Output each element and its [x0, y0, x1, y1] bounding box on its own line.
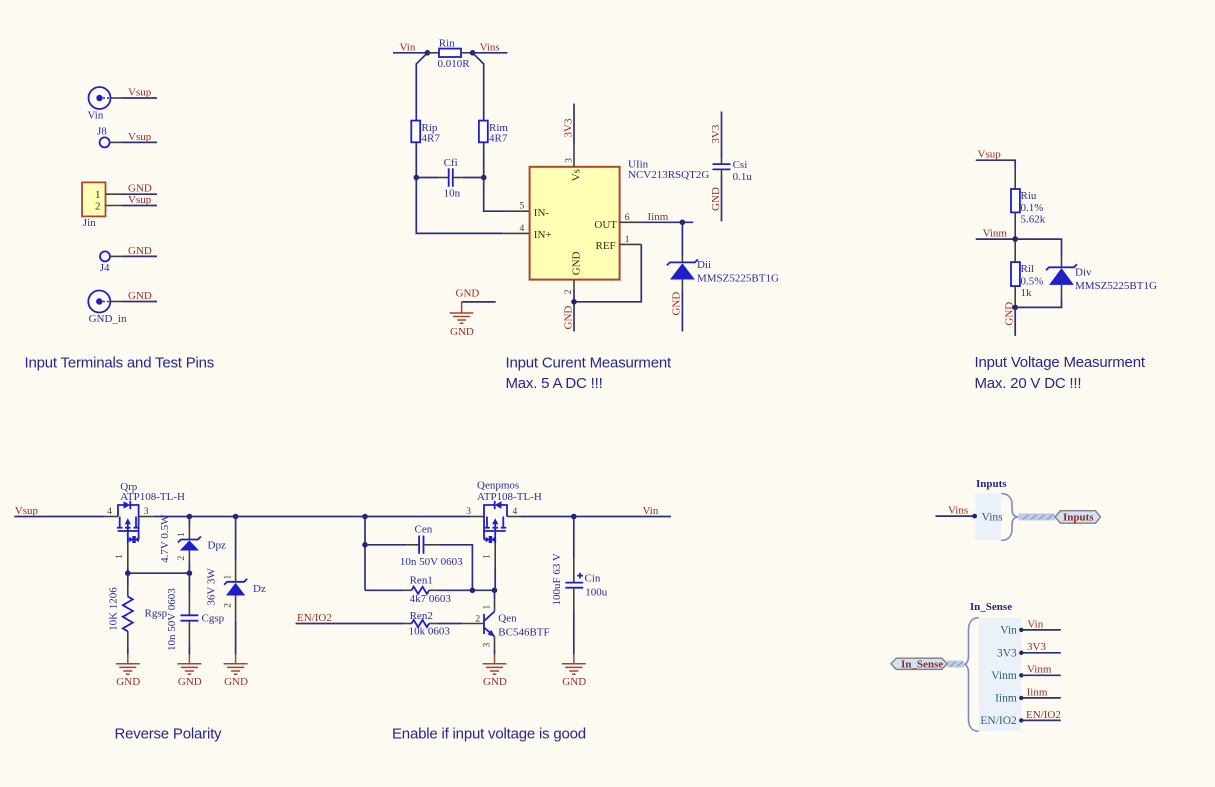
- node junction Cen row left: [362, 542, 368, 548]
- wire EN/IO2: [296, 623, 403, 625]
- wire Div bottom to GND row: [1015, 298, 1061, 307]
- harness In_Sense entry box: [979, 618, 1022, 732]
- pin 1 of Qen (collector): [482, 590, 494, 611]
- pin 4 of Qrp: [105, 507, 118, 517]
- svg-text:2: 2: [95, 200, 101, 212]
- diode Dpz 4.7V 0.5W (zener): [159, 514, 226, 563]
- wire GND from J4: [123, 255, 158, 257]
- wire gate down: [127, 568, 129, 573]
- wire 3V3: [1021, 652, 1061, 654]
- svg-text:Vins: Vins: [948, 505, 968, 517]
- pin 2 of Csi: [721, 169, 723, 175]
- svg-text:Csi: Csi: [733, 159, 748, 171]
- ground under Dz: [224, 655, 248, 688]
- node junction Vinm: [1012, 236, 1018, 242]
- svg-text:J4: J4: [100, 262, 110, 274]
- harness In_Sense brace: [964, 618, 979, 732]
- diode Dii MMSZ5225BT1G (zener): [667, 259, 779, 285]
- wire Csi bottom GND: [721, 176, 723, 222]
- wire of standalone GND port: [462, 301, 496, 303]
- svg-text:ATP108-TL-H: ATP108-TL-H: [477, 491, 542, 503]
- wire 3V3 to pin 3: [573, 104, 575, 145]
- wire Iinm: [1021, 697, 1061, 699]
- pin 2 of Rin: [461, 52, 473, 54]
- svg-text:Vsup: Vsup: [15, 505, 39, 517]
- wire rail to Cin: [573, 517, 575, 559]
- svg-text:6: 6: [625, 213, 630, 223]
- wire Cen row right: [439, 545, 473, 591]
- svg-text:In_Sense: In_Sense: [901, 659, 943, 671]
- svg-text:In_Sense: In_Sense: [970, 601, 1012, 613]
- svg-text:Vsup: Vsup: [128, 131, 152, 143]
- harness entry Iinm: [995, 692, 1023, 704]
- svg-text:Inputs: Inputs: [976, 478, 1007, 490]
- svg-text:EN/IO2: EN/IO2: [297, 612, 332, 624]
- svg-text:10K 1206: 10K 1206: [108, 587, 120, 631]
- node junction Dpz on rail: [187, 514, 193, 520]
- wire Vsup from J8: [123, 141, 158, 143]
- ground under Qen: [483, 655, 507, 688]
- svg-text:Vinm: Vinm: [991, 670, 1017, 682]
- pin 1 of Jin: [106, 193, 122, 195]
- wire Vsup from Vin: [123, 97, 158, 99]
- wire gate row: [128, 572, 190, 574]
- harness entry Vinm: [991, 670, 1023, 682]
- svg-text:2: 2: [177, 556, 187, 561]
- svg-text:Cin: Cin: [585, 572, 601, 584]
- resistor Rin: [438, 37, 471, 70]
- svg-text:NCV213RSQT2G: NCV213RSQT2G: [628, 169, 709, 181]
- wire Cgsp to gnd: [188, 647, 190, 655]
- wire Dii bottom GND: [681, 291, 683, 332]
- wire Riu to Vinm node: [1014, 235, 1016, 239]
- wire Vinm to Div branch: [1015, 239, 1061, 255]
- svg-text:1: 1: [95, 189, 101, 201]
- node junction Cen right leg: [470, 588, 476, 594]
- svg-text:GND_in: GND_in: [89, 313, 127, 325]
- svg-text:Vins: Vins: [480, 41, 500, 53]
- svg-text:5: 5: [520, 202, 525, 212]
- port In_Sense: [891, 658, 947, 670]
- svg-text:2: 2: [564, 289, 574, 294]
- svg-text:Qen: Qen: [498, 613, 517, 625]
- svg-text:GND: GND: [456, 288, 480, 300]
- svg-text:Input Curent Measurment: Input Curent Measurment: [506, 354, 673, 371]
- svg-text:Cen: Cen: [415, 523, 433, 535]
- wire Ren2 to base: [438, 623, 463, 625]
- wire from Cfi right down to IN- row: [484, 178, 503, 212]
- wire rail to Dz: [235, 517, 237, 561]
- capacitor Cfi: [444, 157, 461, 200]
- wire Vinm: [976, 238, 1016, 240]
- wire Cfi row right: [462, 177, 483, 179]
- wire Cen branch down: [364, 517, 366, 591]
- connector J8 (test pin): [97, 126, 110, 148]
- svg-text:IN+: IN+: [534, 229, 552, 241]
- svg-text:EN/IO2: EN/IO2: [980, 715, 1017, 727]
- wire diagonal down-right to Rim: [473, 53, 484, 121]
- wire Vin top-left: [393, 52, 427, 54]
- svg-text:4: 4: [513, 507, 518, 517]
- pin of J4: [110, 255, 123, 257]
- pin 2 of Dz: [223, 596, 235, 621]
- pin 1 of Dpz: [177, 526, 189, 539]
- svg-text:GND: GND: [128, 245, 152, 257]
- pin 3 of Qrp: [139, 507, 154, 517]
- ground symbol (earth) standalone: [450, 302, 474, 338]
- pin 2 of Cfi: [454, 177, 463, 179]
- pin 1 of Rin: [427, 52, 439, 54]
- diode Dz 36V 3W (zener): [206, 568, 266, 606]
- pin 2 of Qen (base): [462, 615, 483, 625]
- connector J4 (test pin): [100, 251, 110, 274]
- svg-text:IN-: IN-: [534, 207, 550, 219]
- node junction GND row: [1012, 305, 1018, 311]
- svg-text:Rin: Rin: [439, 37, 455, 49]
- wire Vsup rail left: [14, 516, 104, 518]
- harness cable In_Sense: [947, 662, 964, 667]
- pin 1 of Qenpmos (gate): [483, 543, 496, 568]
- pin 1 of Dz: [223, 560, 235, 582]
- wire Rgsp to gnd: [127, 648, 129, 655]
- svg-text:Div: Div: [1075, 267, 1092, 279]
- wire Cfi row left: [416, 177, 438, 179]
- svg-text:100u: 100u: [585, 586, 608, 598]
- svg-text:Cgsp: Cgsp: [202, 613, 225, 625]
- node junction Cin on rail: [571, 514, 577, 520]
- svg-text:0.1u: 0.1u: [733, 171, 753, 183]
- pin 1 of Div: [1061, 255, 1063, 267]
- resistor Ren1 4k7 0603: [403, 574, 451, 605]
- resistor Rgsp 10K 1206: [108, 573, 168, 648]
- svg-text:Inputs: Inputs: [1063, 512, 1094, 524]
- ground under Rgsp: [116, 655, 140, 688]
- pin 2 of Riu: [1014, 212, 1016, 235]
- svg-text:Iinm: Iinm: [995, 692, 1017, 704]
- svg-text:4: 4: [107, 507, 112, 517]
- svg-text:Vin: Vin: [1000, 624, 1017, 636]
- svg-text:Vins: Vins: [982, 511, 1004, 523]
- wire Qenpmos gate down to collector node: [494, 568, 496, 590]
- wire EN/IO2: [1021, 719, 1061, 721]
- node junction Dz on rail: [233, 514, 239, 520]
- svg-text:4R7: 4R7: [489, 132, 508, 144]
- pin 2 of Ril: [1014, 286, 1016, 305]
- wire rail to Dpz: [188, 517, 190, 527]
- svg-text:4.7V 0.5W: 4.7V 0.5W: [159, 514, 171, 563]
- svg-text:Dpz: Dpz: [208, 540, 226, 552]
- pin 1 of Ril: [1014, 242, 1016, 262]
- resistor Ren2 10k 0603: [403, 610, 450, 638]
- svg-text:ATP108-TL-H: ATP108-TL-H: [120, 491, 185, 503]
- harness cable Inputs: [1018, 515, 1055, 520]
- node junction Cen branch on rail: [362, 514, 368, 520]
- svg-text:GND: GND: [450, 326, 474, 338]
- svg-text:Max. 5 A DC !!!: Max. 5 A DC !!!: [506, 375, 603, 392]
- svg-text:Cfi: Cfi: [444, 157, 458, 169]
- wire diagonal down-left to Rip: [416, 53, 427, 121]
- svg-text:100uF 63 V: 100uF 63 V: [551, 553, 563, 605]
- pin 6 of UIin (OUT): [620, 213, 642, 223]
- svg-text:Dii: Dii: [697, 259, 711, 271]
- wire Vins: [936, 515, 976, 517]
- resistor Riu: [1011, 189, 1046, 226]
- svg-text:Input Voltage Measurment: Input Voltage Measurment: [975, 354, 1146, 371]
- svg-text:5.62k: 5.62k: [1021, 214, 1046, 226]
- diode Div MMSZ5225BT1G (zener): [1046, 264, 1157, 292]
- svg-text:J8: J8: [97, 126, 107, 138]
- svg-text:Vsup: Vsup: [978, 149, 1002, 161]
- svg-text:36V 3W: 36V 3W: [206, 568, 218, 606]
- svg-text:1: 1: [625, 235, 630, 245]
- harness Inputs brace: [1001, 494, 1018, 541]
- svg-text:GND: GND: [562, 306, 574, 330]
- transistor Q2 Qen BC546BTF (NPN): [484, 612, 550, 639]
- svg-text:Ren1: Ren1: [410, 574, 433, 586]
- svg-text:1: 1: [115, 554, 125, 559]
- svg-text:4R7: 4R7: [422, 132, 441, 144]
- connector GND_in (coax test point): [88, 291, 127, 326]
- node junction Iinm/Dii: [680, 220, 686, 226]
- wire rail Qrp to Qenpmos: [154, 516, 470, 518]
- wire GND from GND_in: [123, 301, 158, 303]
- pin 3 of UIin (top): [564, 145, 574, 167]
- svg-text:Qenpmos: Qenpmos: [477, 480, 519, 492]
- harness Inputs entry box: [975, 494, 1001, 541]
- wire Ril bottom: [1014, 305, 1016, 307]
- svg-text:Iinm: Iinm: [648, 211, 669, 223]
- connector Jin (2-pin header): [82, 182, 106, 229]
- svg-text:Riu: Riu: [1021, 190, 1037, 202]
- wire Rip bottom to Cfi row: [415, 142, 417, 177]
- wire pin2 down GND: [573, 290, 575, 332]
- node junction right of Rin: [470, 50, 476, 56]
- svg-text:GND: GND: [710, 187, 722, 211]
- svg-text:1k: 1k: [1021, 287, 1033, 299]
- node junction pin2/REF: [571, 299, 577, 305]
- svg-text:3: 3: [144, 507, 149, 517]
- node junction left of Rin: [425, 50, 431, 56]
- resistor Ril: [1011, 262, 1043, 299]
- wire Cen row left: [365, 544, 407, 546]
- pin 1 of Riu: [1014, 167, 1016, 189]
- svg-text:0.5%: 0.5%: [1021, 276, 1044, 288]
- svg-text:MMSZ5225BT1G: MMSZ5225BT1G: [1075, 280, 1157, 292]
- svg-text:Enable if input voltage is goo: Enable if input voltage is good: [392, 726, 586, 743]
- svg-text:MMSZ5225BT1G: MMSZ5225BT1G: [697, 273, 779, 285]
- svg-text:Vs: Vs: [571, 169, 583, 181]
- svg-text:Ren2: Ren2: [410, 610, 433, 622]
- svg-text:Vin: Vin: [1027, 618, 1043, 630]
- wire emitter to gnd: [494, 650, 496, 655]
- svg-text:1: 1: [482, 605, 492, 610]
- svg-text:10k 0603: 10k 0603: [409, 625, 451, 637]
- wire Ren1 row left: [365, 589, 403, 591]
- wire Vinm node down: [1014, 239, 1016, 242]
- pin of GND_in: [110, 301, 122, 303]
- transistor Q3 Qenpmos ATP108-TL-H (P-MOSFET): [477, 480, 542, 543]
- svg-text:3V3: 3V3: [710, 124, 722, 143]
- pin 2 of Jin: [106, 205, 122, 207]
- node junction gate row right: [187, 570, 193, 576]
- svg-text:Vsup: Vsup: [128, 87, 152, 99]
- svg-text:1: 1: [177, 532, 187, 537]
- wire Vin: [1021, 629, 1061, 631]
- svg-text:3: 3: [466, 507, 471, 517]
- wire Vinm: [1021, 674, 1061, 676]
- pin 2 of Dpz: [177, 551, 189, 563]
- pin 4 of Qenpmos: [507, 507, 521, 517]
- wire Vsup from Jin pin2: [122, 205, 157, 207]
- wire Ren1 to collector node: [438, 589, 495, 591]
- node dot at harness entry: [972, 514, 977, 519]
- svg-text:GND: GND: [671, 292, 683, 316]
- harness entry Vin: [1000, 624, 1023, 636]
- resistor Rip: [411, 121, 440, 145]
- svg-text:2: 2: [475, 615, 480, 625]
- svg-text:GND: GND: [1004, 302, 1016, 326]
- pin 1 of UIin (REF): [620, 235, 642, 245]
- capacitor Cen: [400, 523, 463, 568]
- wire from Cfi left down to IN+ row: [416, 178, 503, 234]
- svg-text:BC546BTF: BC546BTF: [498, 627, 549, 639]
- pin 1 of Qrp (gate): [115, 543, 128, 568]
- svg-text:3V3: 3V3: [997, 647, 1017, 659]
- svg-text:GND: GND: [128, 183, 152, 195]
- svg-text:4: 4: [520, 224, 525, 234]
- svg-text:Vin: Vin: [400, 41, 416, 53]
- svg-text:3: 3: [482, 643, 492, 648]
- capacitor Cin 100uF (polarized): [551, 553, 608, 612]
- svg-text:Vin: Vin: [88, 110, 104, 122]
- svg-text:Dz: Dz: [253, 583, 266, 595]
- pin 3 of Qen (emitter): [482, 637, 494, 651]
- svg-text:Vinm: Vinm: [1027, 664, 1052, 676]
- pin 3 of Qenpmos: [466, 507, 484, 517]
- wire GND down: [1014, 307, 1016, 336]
- pin 5 of UIin: [503, 202, 530, 212]
- node junction gate/collector: [492, 588, 498, 594]
- svg-text:REF: REF: [596, 240, 616, 252]
- pin 2 of UIin (bottom GND): [564, 280, 574, 295]
- wire Cin to gnd: [573, 612, 575, 655]
- svg-text:10n: 10n: [444, 188, 461, 200]
- port Inputs: [1055, 511, 1100, 524]
- svg-text:Input Terminals and Test Pins: Input Terminals and Test Pins: [25, 354, 215, 371]
- svg-text:1: 1: [483, 554, 493, 559]
- pin 1 of Cfi: [438, 177, 448, 179]
- harness entry 3V3: [997, 647, 1024, 659]
- svg-text:3V3: 3V3: [563, 118, 575, 137]
- wire 3V3 to Csi: [721, 112, 723, 159]
- node junction gate row left: [125, 570, 131, 576]
- wire REF loop to GND net: [574, 244, 641, 301]
- wire Dz to gnd: [235, 621, 237, 655]
- node junction Cfi left: [414, 175, 420, 181]
- wire Vsup top: [976, 160, 1016, 167]
- svg-text:0.1%: 0.1%: [1021, 202, 1044, 214]
- wire Rim bottom to Cfi row: [483, 142, 485, 177]
- pin of J8: [110, 141, 123, 143]
- harness entry EN/IO2: [980, 715, 1023, 727]
- ground under Cin: [562, 655, 586, 688]
- svg-text:2: 2: [223, 603, 233, 608]
- svg-text:Ril: Ril: [1021, 263, 1034, 275]
- svg-text:Max. 20 V DC !!!: Max. 20 V DC !!!: [975, 375, 1082, 392]
- svg-text:Vin: Vin: [643, 505, 659, 517]
- svg-text:4k7 0603: 4k7 0603: [410, 593, 452, 605]
- wire Vins top-right: [473, 52, 508, 54]
- capacitor Csi: [713, 159, 753, 183]
- svg-text:GND: GND: [128, 290, 152, 302]
- svg-text:3: 3: [564, 158, 574, 163]
- svg-text:10n 50V 0603: 10n 50V 0603: [166, 588, 178, 651]
- svg-text:EN/IO2: EN/IO2: [1026, 709, 1061, 721]
- svg-text:Jin: Jin: [83, 217, 96, 229]
- ground under Cgsp: [177, 655, 201, 688]
- transistor Q1 Qrp ATP108-TL-H (P-MOSFET): [117, 481, 185, 543]
- svg-text:Vinm: Vinm: [983, 228, 1008, 240]
- svg-text:Iinm: Iinm: [1027, 686, 1048, 698]
- svg-text:GND: GND: [571, 251, 583, 275]
- op-amp U1 UIin NCV213RSQT2G body: [530, 159, 710, 280]
- svg-text:1: 1: [223, 575, 233, 580]
- svg-text:Rgsp: Rgsp: [145, 608, 168, 620]
- svg-text:Vsup: Vsup: [128, 194, 152, 206]
- wire Dii top: [681, 222, 683, 256]
- pin 1 of Csi: [721, 158, 723, 164]
- svg-text:OUT: OUT: [594, 219, 617, 231]
- node junction Cfi right: [481, 175, 487, 181]
- pin of Vin: [111, 97, 123, 99]
- connector Vin (coax test point): [88, 87, 111, 122]
- wire Dpz to gate row: [188, 562, 190, 573]
- svg-text:10n 50V 0603: 10n 50V 0603: [400, 556, 463, 568]
- pin 1 of Dii: [681, 256, 683, 262]
- svg-text:3V3: 3V3: [1027, 641, 1046, 653]
- wire Iinm from pin 6: [641, 221, 693, 223]
- resistor Rim: [479, 121, 508, 145]
- pin 2 of Dii: [681, 280, 683, 291]
- pin 2 of Div: [1061, 285, 1063, 298]
- wire GND from Jin pin1: [122, 193, 157, 195]
- wire rail Qenpmos to Vin: [521, 516, 672, 518]
- pin 4 of UIin: [503, 224, 530, 234]
- svg-text:Reverse Polarity: Reverse Polarity: [115, 726, 223, 743]
- svg-text:0.010R: 0.010R: [438, 58, 471, 70]
- capacitor Cgsp: [166, 573, 225, 651]
